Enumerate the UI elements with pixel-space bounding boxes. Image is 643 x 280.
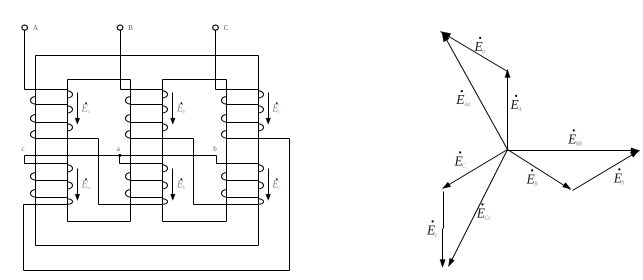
svg-text:A: A [517,107,522,113]
svg-text:B: B [534,181,538,187]
svg-text:A: A [33,24,38,32]
svg-text:Cc: Cc [484,215,491,221]
svg-text:C: C [224,24,229,32]
svg-text:b: b [213,145,217,153]
svg-text:c: c [21,145,24,153]
svg-text:b: b [621,180,624,186]
svg-text:Aa: Aa [463,102,471,108]
svg-text:B: B [128,24,133,32]
svg-text:a: a [482,49,485,55]
svg-text:Bb: Bb [576,141,583,147]
svg-text:c: c [435,232,438,238]
